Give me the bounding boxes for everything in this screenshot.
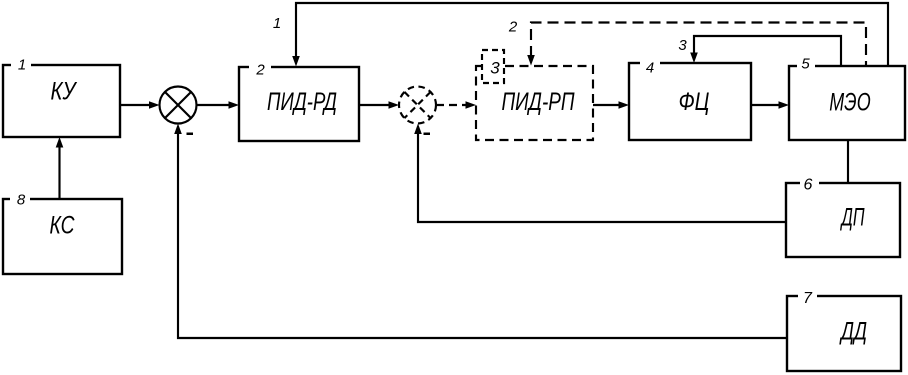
svg-text:ФЦ: ФЦ: [679, 88, 710, 116]
block 6 ДП: [786, 176, 900, 257]
svg-text:6: 6: [804, 177, 813, 194]
wire S1 to ПИД-РД: [197, 101, 240, 109]
wire КС to КУ: [56, 137, 64, 199]
svg-text:4: 4: [646, 60, 654, 77]
svg-text:МЭО: МЭО: [829, 89, 871, 117]
summing junction S2 (dashed): [399, 87, 436, 124]
wire S2 to ПИД-РП (dashed with solid arrow): [436, 101, 476, 109]
svg-text:3: 3: [678, 37, 687, 54]
summing junction S1: [160, 87, 197, 124]
wire ДД feedback to S1: [174, 124, 787, 339]
block 5 МЭО: [789, 59, 905, 140]
wire ФЦ to МЭО: [751, 101, 789, 109]
wire feedback line 3 МЭО to ФЦ top: [690, 36, 841, 66]
wire ПИД-РД to S2: [359, 101, 399, 109]
svg-text:ПИД-РП: ПИД-РП: [502, 88, 576, 116]
svg-text:КС: КС: [50, 212, 76, 240]
svg-text:3: 3: [490, 59, 500, 78]
svg-text:1: 1: [18, 57, 26, 74]
wire feedback line 2 МЭО to ПИД-РП top (dashed): [527, 23, 866, 67]
svg-text:1: 1: [273, 15, 281, 32]
block 2 ПИД-РД: [239, 60, 359, 141]
wire ДП feedback to S2: [414, 124, 786, 223]
wire feedback line 1 МЭО to ПИД-РД top: [292, 3, 888, 67]
svg-text:2: 2: [508, 19, 518, 36]
svg-text:8: 8: [17, 192, 26, 209]
svg-text:2: 2: [255, 62, 265, 79]
wire МЭО to ДП: [847, 140, 849, 183]
svg-text:ДП: ДП: [840, 204, 866, 232]
svg-text:7: 7: [803, 290, 813, 307]
block 4 ФЦ: [629, 57, 751, 140]
svg-text:5: 5: [801, 56, 810, 73]
block 8 КС: [3, 192, 122, 274]
svg-text:КУ: КУ: [51, 78, 78, 106]
wire ПИД-РП to ФЦ: [593, 101, 629, 109]
svg-text:ДД: ДД: [839, 318, 867, 346]
wire КУ to S1: [120, 101, 160, 109]
block 3 ПИД-РП (dashed): [476, 50, 593, 140]
block 1 КУ: [3, 58, 120, 137]
svg-text:ПИД-РД: ПИД-РД: [267, 88, 337, 116]
block 7 ДД: [787, 289, 901, 371]
